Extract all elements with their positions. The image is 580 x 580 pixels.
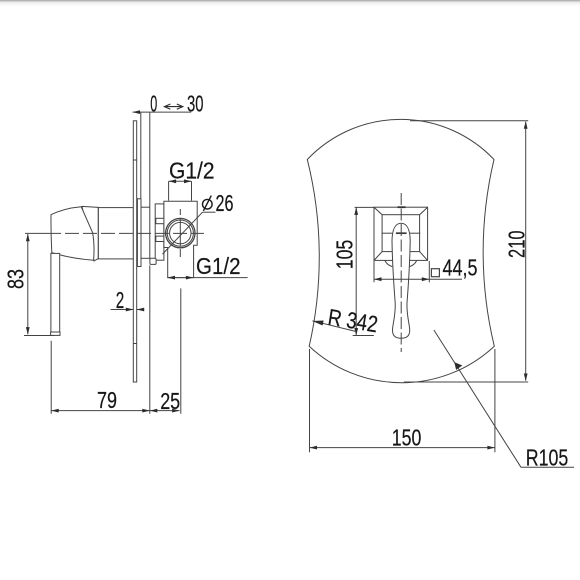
- svg-text:R105: R105: [526, 444, 569, 470]
- svg-text:30: 30: [187, 90, 204, 116]
- svg-text:25: 25: [160, 388, 180, 414]
- svg-text:G1/2: G1/2: [169, 158, 215, 184]
- svg-text:83: 83: [3, 269, 29, 289]
- svg-text:150: 150: [392, 424, 422, 450]
- svg-text:26: 26: [216, 190, 234, 216]
- svg-text:210: 210: [504, 230, 530, 258]
- svg-text:0: 0: [150, 90, 157, 116]
- svg-text:44,5: 44,5: [443, 255, 478, 281]
- svg-text:79: 79: [97, 387, 117, 413]
- svg-text:G1/2: G1/2: [196, 253, 241, 279]
- svg-text:2: 2: [116, 287, 125, 313]
- svg-text:105: 105: [332, 240, 358, 270]
